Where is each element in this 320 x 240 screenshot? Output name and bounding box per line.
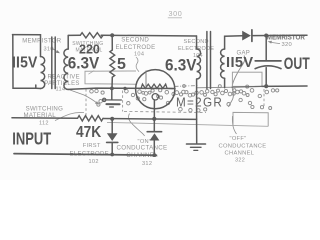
wire top right corner down to T2 <box>196 36 198 49</box>
resistor 5 vertical zigzag <box>110 50 115 77</box>
leader from 320 <box>268 41 280 44</box>
label MEMRISTOR 320 (right) <box>267 34 305 48</box>
resistor 220 zigzag <box>80 33 103 38</box>
diode D2 lead down <box>153 140 155 155</box>
dashed channel bottom <box>124 111 206 112</box>
label FIRST ELECTRODE 102 <box>70 143 109 165</box>
T2 right winding riser <box>225 36 243 49</box>
svg-text:II5V: II5V <box>226 55 254 71</box>
trimmer plate 1 <box>103 99 121 101</box>
transformer T1 primary winding 115V <box>41 57 45 89</box>
label 'OFF' CONDUCTANCE CHANNEL 322 <box>219 136 267 163</box>
label 'ON' CONDUCTANCE CHANNEL 312 <box>117 139 168 167</box>
svg-text:5: 5 <box>117 56 126 73</box>
diode D3 body <box>242 31 251 41</box>
figure number 300 <box>168 9 182 18</box>
wire diode to right end (through MEMRISTOR text) <box>253 34 307 36</box>
trimmer plate 3 small <box>110 106 114 108</box>
svg-text:ELECTRODE: ELECTRODE <box>116 44 156 51</box>
svg-text:INPUT: INPUT <box>12 130 51 149</box>
ground bar 3 <box>194 149 198 151</box>
dashed boundary vertical mid <box>122 91 124 112</box>
wire rect bottom to cap junction <box>232 85 262 88</box>
label MEMRISTOR 310 (left) <box>22 39 62 53</box>
svg-text:"OFF": "OFF" <box>230 136 247 142</box>
wire box corner to resistor 220 <box>68 34 80 36</box>
leader from 114 to particles <box>67 89 100 105</box>
rail mid right segment to ground corner <box>103 119 197 144</box>
label SECOND ELECTRODE 104 (middle) <box>116 37 156 58</box>
T2 right winding <box>221 49 225 78</box>
first electrode top edge (long light line) <box>107 122 268 126</box>
dashed boundary vertical left <box>85 89 87 117</box>
leader from 112 <box>55 112 84 120</box>
diode D1 anode lead <box>111 119 113 133</box>
wire top-left input <box>13 35 41 57</box>
diode D1 cathode bar <box>107 141 118 143</box>
wire node to resistor 5 <box>111 35 113 50</box>
svg-text:47K: 47K <box>76 125 102 142</box>
diode D1 lead down <box>111 142 113 154</box>
ground bar 2 <box>191 146 202 148</box>
electrode rect right-top (patent) <box>232 72 262 86</box>
T1 primary bottom stub <box>36 87 41 89</box>
T2 core line b <box>210 32 212 89</box>
T2 right winding lower lead <box>224 78 226 87</box>
svg-text:300: 300 <box>169 9 183 18</box>
wire input loop left/bottom <box>13 35 36 89</box>
ground bar 1 <box>187 143 206 145</box>
wire 220 to right corner <box>101 34 196 37</box>
diode D2 body <box>150 133 160 140</box>
svg-text:6.3V: 6.3V <box>165 56 197 75</box>
T2 left winding lower lead <box>196 79 198 119</box>
bottom rail (input line) <box>14 154 157 156</box>
trimmer contact ring <box>103 98 106 101</box>
T1 secondary winding <box>64 49 68 89</box>
rail mid (first electrode) left segment <box>12 117 78 120</box>
capacitor plate top <box>255 60 281 62</box>
leader from 104 to electrode <box>136 57 139 72</box>
output bottom wire <box>262 85 307 87</box>
svg-text:CONDUCTANCE: CONDUCTANCE <box>117 145 168 152</box>
svg-text:II5V: II5V <box>12 54 37 72</box>
tube cathode small circle <box>152 94 158 100</box>
wire junction down to capacitor <box>265 36 267 61</box>
wire resistor 5 to material line <box>111 77 113 88</box>
svg-text:CONDUCTANCE: CONDUCTANCE <box>219 143 267 149</box>
svg-text:M=2GR: M=2GR <box>176 95 223 109</box>
T1 secondary winding riser <box>67 36 69 50</box>
dash-dot section line <box>175 85 200 88</box>
label REACTIVE PARTICLES 114 <box>44 75 80 93</box>
T1 core line b <box>54 37 56 89</box>
label SWITCHING MATERIAL 112 <box>24 106 64 127</box>
reactive particles (small circles) <box>90 85 279 113</box>
material line dark left (88 rail) <box>68 88 175 89</box>
diode D2 bar <box>147 131 161 133</box>
svg-text:104: 104 <box>134 52 144 58</box>
junction nodes <box>110 33 268 157</box>
trimmer plate 2 thick <box>106 103 119 105</box>
svg-text:112: 112 <box>39 121 49 127</box>
material boundary under transformer2 <box>196 86 233 89</box>
leader arrow from 310 <box>53 49 61 54</box>
leader from OFF label up to channel <box>232 116 236 134</box>
svg-text:OUT: OUT <box>284 55 310 73</box>
channel rect right-bottom (patent) <box>233 112 268 126</box>
svg-text:CHANNEL: CHANNEL <box>225 150 255 156</box>
svg-text:312: 312 <box>142 161 152 167</box>
tube lead down through rail to diode D2 <box>153 100 155 131</box>
dashed boundary vertical right <box>263 89 265 108</box>
leader from GAP down through gap region <box>229 56 245 108</box>
tube circle envelope <box>136 70 175 109</box>
capacitor plate bottom curved <box>255 66 281 69</box>
svg-text:322: 322 <box>235 158 245 164</box>
svg-text:FIRST: FIRST <box>83 143 101 149</box>
T2 core line a <box>206 32 208 89</box>
diode D1 body <box>107 133 118 141</box>
diode D3 wire to cathode bar <box>251 30 253 42</box>
wire capacitor down <box>265 68 267 87</box>
leader tick into tube <box>145 71 147 88</box>
small cap / trimmer under tube <box>111 88 113 99</box>
T1 core line a <box>51 37 53 89</box>
svg-text:320: 320 <box>282 42 293 48</box>
resistor 47K zigzag <box>78 116 104 121</box>
leader from ON channel label <box>129 114 145 137</box>
label SECOND ELECTRODE 104 (right) <box>178 39 214 59</box>
T2 left winding <box>197 49 201 79</box>
svg-text:SECOND: SECOND <box>121 37 149 44</box>
svg-text:6.3V: 6.3V <box>68 54 100 73</box>
svg-text:102: 102 <box>89 159 99 165</box>
electrode rect left (patent) <box>85 71 136 85</box>
tube filament zigzag <box>137 84 174 89</box>
